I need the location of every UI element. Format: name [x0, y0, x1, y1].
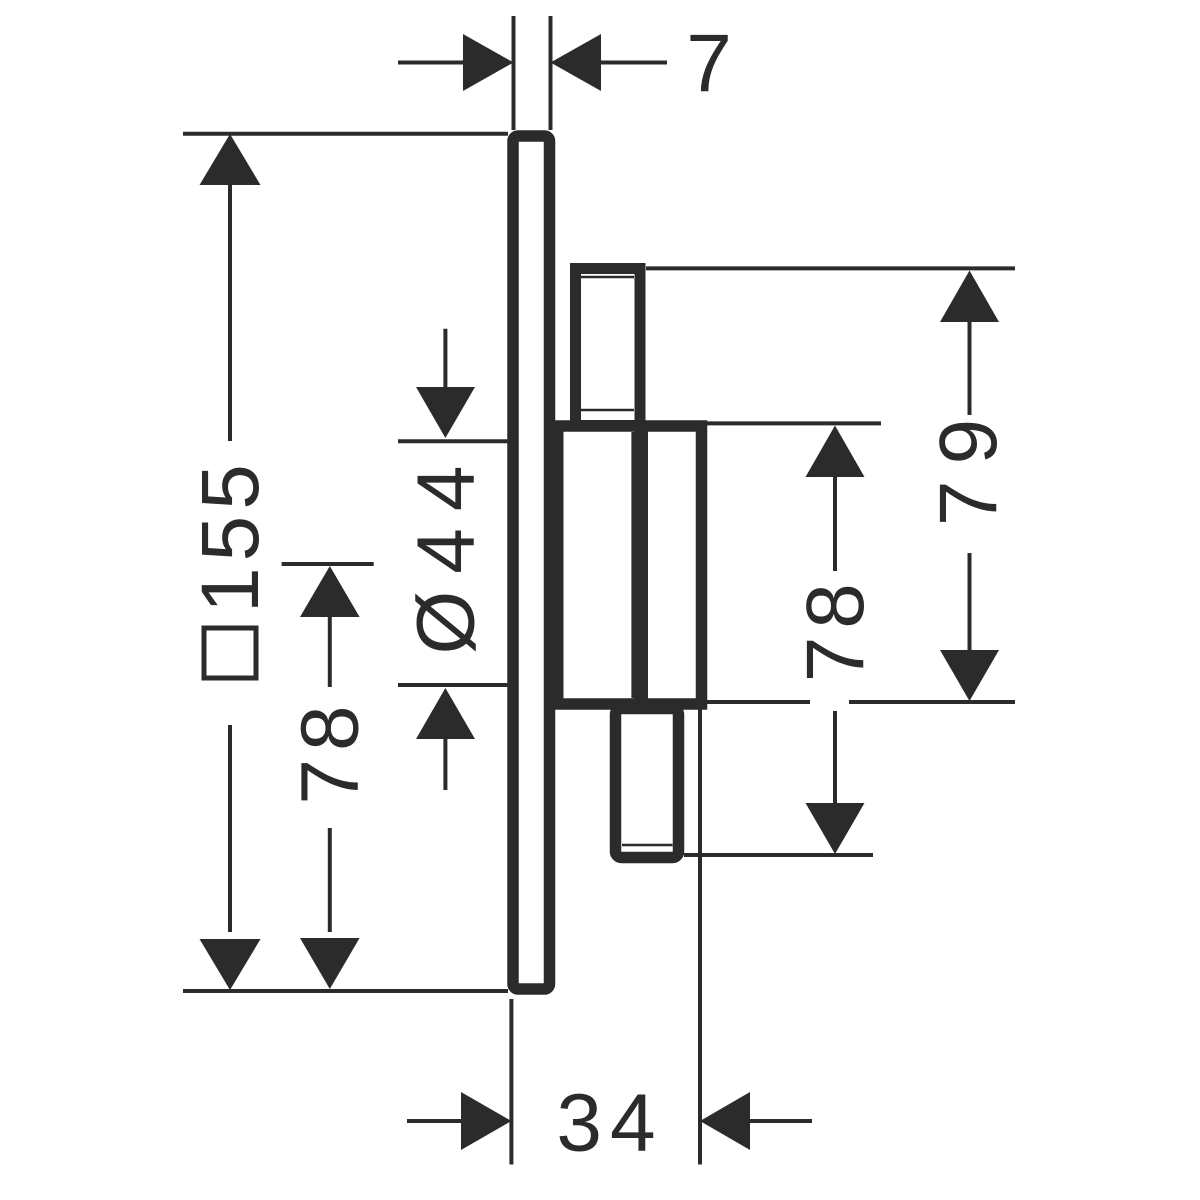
svg-text:79: 79	[923, 403, 1014, 526]
svg-text:Ø44: Ø44	[400, 449, 491, 655]
svg-text:34: 34	[556, 1078, 663, 1169]
svg-text:7: 7	[686, 18, 738, 109]
svg-text:155: 155	[185, 458, 276, 613]
svg-text:78: 78	[285, 697, 376, 804]
svg-text:78: 78	[790, 575, 881, 682]
